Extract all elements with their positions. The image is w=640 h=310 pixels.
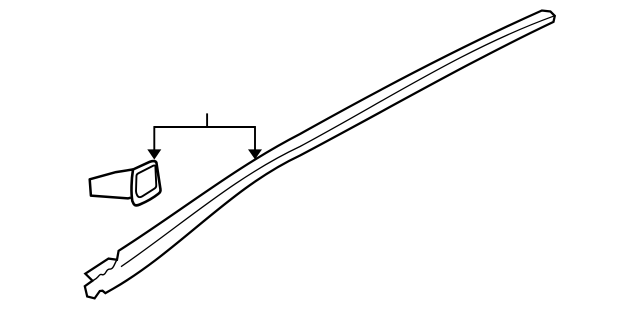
right arrowhead — [248, 149, 262, 159]
molding ridge line — [121, 16, 554, 267]
leader bracket — [153, 113, 256, 151]
clip inner opening — [136, 165, 156, 197]
left arrowhead — [147, 149, 161, 159]
molding body outline — [85, 11, 555, 299]
clip flange outer — [131, 161, 160, 205]
molding break wavy line — [93, 260, 117, 281]
clip body — [90, 169, 134, 198]
